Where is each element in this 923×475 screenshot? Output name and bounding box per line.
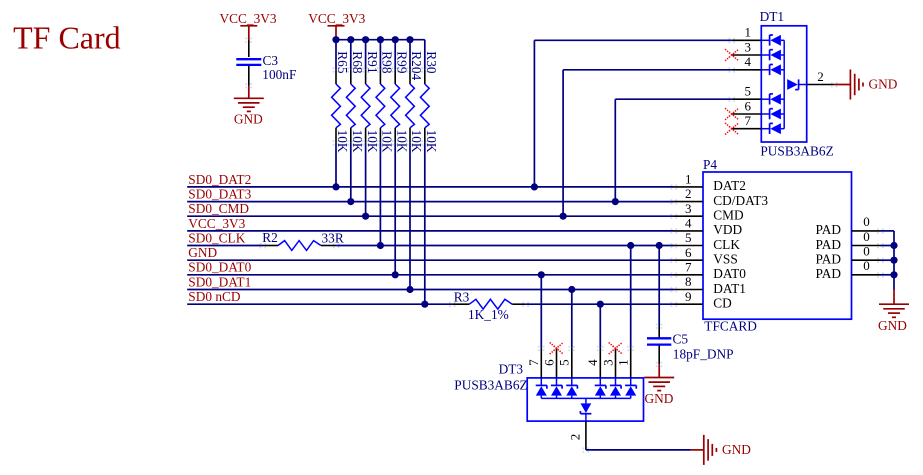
svg-text:VCC_3V3: VCC_3V3: [220, 11, 277, 26]
svg-text:10K: 10K: [409, 130, 424, 153]
svg-text:VSS: VSS: [713, 252, 737, 267]
svg-text:5: 5: [557, 359, 572, 366]
ground GND (DT3 pin2): [691, 449, 704, 451]
svg-text:R65: R65: [335, 51, 350, 74]
junction rail: [406, 36, 413, 43]
svg-text:2: 2: [817, 69, 824, 84]
svg-text:C5: C5: [673, 331, 689, 346]
svg-text:2: 2: [567, 434, 582, 441]
junction: [656, 242, 663, 249]
wire PAD bus to GND: [893, 275, 895, 290]
DT3 pin 7 stub: [540, 348, 542, 378]
P4 pin 1 stub: [674, 186, 703, 188]
wire PAD stub: [881, 259, 895, 261]
resistor R98 10K pull-up: [379, 40, 381, 70]
junction: [538, 271, 545, 278]
svg-text:100nF: 100nF: [262, 67, 296, 82]
junction rail: [332, 36, 339, 43]
svg-text:CD: CD: [713, 296, 732, 311]
wire PAD stub: [881, 274, 895, 276]
connector P4 box: [703, 172, 852, 319]
capacitor C5: [658, 326, 660, 338]
svg-text:6: 6: [541, 359, 556, 366]
svg-text:DAT2: DAT2: [713, 178, 746, 193]
svg-text:7: 7: [526, 359, 541, 366]
DT3 diode pin 7: [540, 378, 542, 386]
svg-text:R68: R68: [350, 51, 365, 74]
DT1 no-connect X pin6: [729, 112, 731, 114]
svg-text:PUSB3AB6Z: PUSB3AB6Z: [454, 377, 527, 392]
DT3 no-connect X pin6: [553, 346, 555, 348]
svg-text:33R: 33R: [322, 231, 344, 246]
svg-text:SD0_CLK: SD0_CLK: [188, 230, 245, 245]
P4 pin 6 stub: [674, 259, 703, 261]
svg-text:1K_1%: 1K_1%: [468, 307, 509, 322]
DT1 diode pin 3: [761, 54, 769, 56]
DT1 pin 6 stub: [732, 113, 761, 115]
svg-text:10K: 10K: [380, 130, 395, 153]
DT3 pin 4 stub: [599, 348, 601, 378]
svg-text:10K: 10K: [424, 130, 439, 153]
svg-text:DT1: DT1: [760, 9, 784, 24]
P4 PAD pin 1 stub: [852, 230, 881, 232]
svg-text:DAT1: DAT1: [713, 281, 746, 296]
wire net SD0 nCD right: [526, 303, 674, 305]
svg-text:CLK: CLK: [713, 237, 740, 252]
DT3 pin 3 stub: [615, 348, 617, 378]
svg-text:2: 2: [685, 186, 692, 201]
P4 PAD pin 4 stub: [852, 274, 881, 276]
DT3 diode pin 6: [556, 378, 558, 386]
svg-text:VDD: VDD: [713, 222, 742, 237]
svg-text:6: 6: [744, 98, 751, 113]
svg-text:0: 0: [863, 244, 870, 259]
P4 PAD pin 2 stub: [852, 245, 881, 247]
DT1 pin 2 stub: [807, 84, 835, 86]
P4 pin 5 stub: [674, 245, 703, 247]
junction: [627, 242, 634, 249]
DT3 pin 6 stub: [556, 348, 558, 378]
svg-text:6: 6: [685, 245, 692, 260]
junction: [568, 286, 575, 293]
svg-text:GND: GND: [645, 391, 674, 406]
wire C3 to GND: [248, 66, 250, 86]
svg-text:R99: R99: [394, 51, 409, 74]
svg-text:TF Card: TF Card: [13, 19, 121, 55]
DT1 pin 3 stub: [732, 54, 761, 56]
svg-text:R204: R204: [409, 51, 424, 80]
svg-text:0: 0: [863, 214, 870, 229]
DT1 pin 4 stub: [732, 69, 761, 71]
svg-text:SD0 nCD: SD0 nCD: [188, 289, 241, 304]
resistor R30 10K pull-up: [424, 40, 426, 70]
svg-text:8: 8: [685, 274, 692, 289]
DT1 pin 1 stub: [732, 39, 761, 41]
junction rail: [362, 36, 369, 43]
resistor R204 10K pull-up: [409, 40, 411, 70]
svg-text:3: 3: [685, 201, 692, 216]
svg-text:PAD: PAD: [816, 266, 842, 281]
P4 pin 4 stub: [674, 230, 703, 232]
DT1 diode pin 4: [761, 69, 769, 71]
wire net SD0 nCD left: [187, 303, 452, 305]
wire net SD0_DAT2: [187, 186, 674, 188]
wire SD0_CLK to DT3 pin1: [630, 246, 632, 348]
DT1 no-connect X pin3: [729, 53, 731, 55]
wire VCC to C3: [248, 40, 250, 57]
wire net SD0_DAT1: [187, 289, 674, 291]
ground GND (C5): [658, 364, 660, 377]
DT3 pin 2 stub: [585, 421, 587, 450]
junction PAD: [890, 242, 897, 249]
svg-text:GND: GND: [878, 318, 907, 333]
wire net SD0_CMD: [187, 215, 674, 217]
svg-text:R2: R2: [262, 230, 278, 245]
svg-text:VCC_3V3: VCC_3V3: [308, 11, 365, 26]
svg-text:PAD: PAD: [816, 222, 842, 237]
DT1 pin 7 stub: [732, 128, 761, 130]
svg-text:10K: 10K: [335, 130, 350, 153]
svg-text:7: 7: [685, 259, 692, 274]
svg-text:4: 4: [685, 216, 692, 231]
svg-text:1: 1: [616, 359, 631, 366]
DT3 pin 1 stub: [630, 348, 632, 378]
DT1 pin 5 stub: [732, 98, 761, 100]
P4 pin 2 stub: [674, 201, 703, 203]
DT1 TVS diode to pin2: [787, 79, 798, 90]
svg-text:5: 5: [685, 230, 692, 245]
junction PAD: [890, 271, 897, 278]
DT1 anode bus: [783, 40, 785, 128]
resistor R65 10K pull-up: [335, 40, 337, 70]
svg-text:VCC_3V3: VCC_3V3: [188, 216, 245, 231]
DT3 no-connect X pin3: [612, 346, 614, 348]
ground GND (C3): [248, 86, 250, 99]
svg-text:R3: R3: [454, 290, 470, 305]
wire net VCC_3V3: [187, 230, 674, 232]
svg-text:DAT0: DAT0: [713, 266, 746, 281]
P4 pin 7 stub: [674, 274, 703, 276]
svg-text:SD0_DAT1: SD0_DAT1: [188, 274, 251, 289]
DT1 diode pin 5: [761, 98, 769, 100]
DT1 diode pin 6: [761, 113, 769, 115]
svg-text:PUSB3AB6Z: PUSB3AB6Z: [760, 144, 833, 159]
junction pull-up to net: [332, 183, 339, 190]
svg-text:1: 1: [744, 25, 751, 40]
svg-text:SD0_DAT0: SD0_DAT0: [188, 260, 251, 275]
svg-text:10K: 10K: [350, 130, 365, 153]
svg-text:18pF_DNP: 18pF_DNP: [673, 346, 734, 361]
wire SD0_CMD to DT1 pin4: [562, 70, 564, 216]
DT3 anode bus: [541, 397, 630, 399]
resistor R99 10K pull-up: [394, 40, 396, 70]
junction pull-up to net: [392, 271, 399, 278]
DT3 pin 5 stub: [571, 348, 573, 378]
svg-text:GND: GND: [234, 112, 263, 127]
svg-text:SD0_DAT3: SD0_DAT3: [188, 187, 251, 202]
P4 pin 3 stub: [674, 215, 703, 217]
wire net SD0_DAT0: [187, 274, 674, 276]
wire SD0_DAT0 to DT3 pin7: [540, 275, 542, 348]
svg-text:4: 4: [585, 359, 600, 366]
DT3 diode pin 1: [630, 378, 632, 386]
svg-text:CMD: CMD: [713, 208, 744, 223]
svg-text:C3: C3: [263, 53, 279, 68]
capacitor C3: [236, 58, 261, 60]
svg-text:7: 7: [744, 113, 751, 128]
svg-text:3: 3: [744, 39, 751, 54]
junction: [560, 213, 567, 220]
junction rail: [392, 36, 399, 43]
wire DT3 pin2 to GND: [586, 449, 691, 451]
svg-text:SD0_DAT2: SD0_DAT2: [188, 172, 251, 187]
svg-text:4: 4: [744, 54, 751, 69]
wire net SD0_DAT3: [187, 201, 674, 203]
resistor R68 10K pull-up: [350, 40, 352, 70]
svg-text:P4: P4: [703, 157, 717, 172]
junction pull-up to net: [377, 242, 384, 249]
resistor R91 10K pull-up: [365, 40, 367, 70]
DT1 no-connect X pin7: [729, 126, 731, 128]
svg-text:R91: R91: [365, 51, 380, 73]
svg-text:3: 3: [600, 359, 615, 366]
junction rail: [347, 36, 354, 43]
wire PAD stub: [881, 245, 895, 247]
svg-text:1: 1: [685, 172, 692, 187]
svg-text:GND: GND: [188, 245, 217, 260]
wire VCC rail: [336, 39, 425, 41]
wire SD0_nCD to DT3 pin4: [599, 304, 601, 348]
junction PAD: [890, 257, 897, 264]
junction: [597, 301, 604, 308]
junction pull-up to net: [406, 286, 413, 293]
DT3 TVS diode to pin2: [585, 398, 587, 403]
wire PAD join: [881, 230, 895, 232]
svg-text:GND: GND: [869, 76, 898, 91]
svg-text:9: 9: [685, 289, 692, 304]
wire net GND: [187, 259, 674, 261]
ground GND (P4 PAD): [893, 290, 895, 305]
junction pull-up to net: [421, 301, 428, 308]
junction pull-up to net: [362, 213, 369, 220]
svg-text:10K: 10K: [394, 130, 409, 153]
junction pull-up to net: [347, 198, 354, 205]
svg-text:TFCARD: TFCARD: [704, 319, 757, 334]
ground GND (DT1 pin2): [834, 84, 850, 86]
DT3 diode pin 3: [615, 378, 617, 386]
svg-text:10K: 10K: [365, 130, 380, 153]
wire SD0_DAT1 to DT3 pin5: [571, 290, 573, 348]
wire SD0_DAT3 to DT1 pin5: [614, 99, 616, 201]
wire SD0_CLK to C5: [658, 246, 660, 327]
junction: [612, 198, 619, 205]
svg-text:SD0_CMD: SD0_CMD: [188, 201, 249, 216]
svg-text:0: 0: [863, 258, 870, 273]
resistor R2 33R: [263, 245, 278, 247]
P4 pin 8 stub: [674, 289, 703, 291]
wire net SD0_CLK left: [187, 245, 263, 247]
wire SD0_DAT2 to DT1 pin1: [533, 40, 535, 187]
svg-text:GND: GND: [722, 442, 751, 457]
svg-text:CD/DAT3: CD/DAT3: [713, 193, 768, 208]
DT3 diode pin 4: [599, 378, 601, 386]
svg-text:PAD: PAD: [816, 252, 842, 267]
ESD array DT3 box: [527, 378, 643, 421]
ESD array DT1 box: [761, 26, 806, 142]
P4 pin 9 stub: [674, 303, 703, 305]
DT1 diode pin 7: [761, 128, 769, 130]
svg-text:0: 0: [863, 229, 870, 244]
wire net SD0_CLK right: [336, 245, 674, 247]
DT1 diode pin 1: [761, 39, 769, 41]
svg-text:R98: R98: [380, 51, 395, 74]
svg-text:5: 5: [744, 84, 751, 99]
svg-text:PAD: PAD: [816, 237, 842, 252]
svg-text:R30: R30: [424, 51, 439, 74]
resistor R3 1K_1%: [452, 303, 469, 305]
junction rail: [377, 36, 384, 43]
junction: [531, 183, 538, 190]
svg-text:DT3: DT3: [499, 362, 524, 377]
P4 PAD pin 3 stub: [852, 259, 881, 261]
DT3 diode pin 5: [571, 378, 573, 386]
